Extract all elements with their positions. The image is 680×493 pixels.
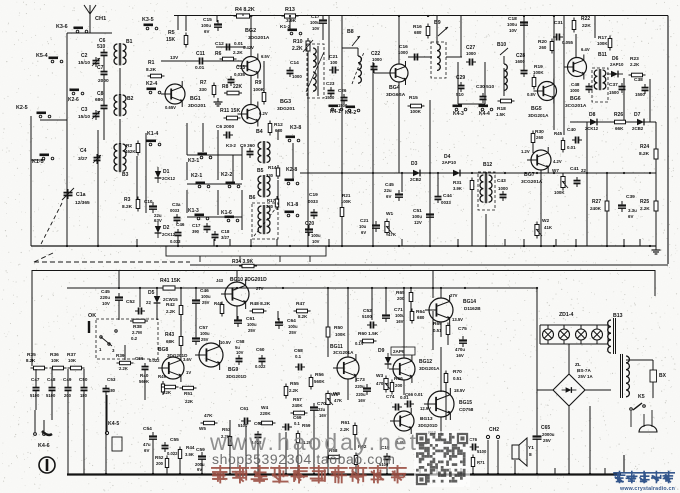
svg-text:2CB2: 2CB2: [410, 177, 422, 182]
svg-text:ZD1-4: ZD1-4: [559, 312, 574, 318]
svg-text:B1: B1: [126, 39, 133, 45]
svg-text:W2: W2: [542, 218, 550, 224]
svg-text:Y1: Y1: [528, 445, 534, 451]
svg-text:K2-4: K2-4: [146, 81, 157, 87]
svg-text:BX: BX: [659, 373, 667, 379]
svg-text:R17: R17: [267, 198, 276, 203]
svg-text:D7: D7: [634, 112, 641, 118]
svg-text:260: 260: [536, 135, 544, 140]
svg-text:10V: 10V: [312, 239, 320, 244]
svg-text:BG14: BG14: [463, 299, 476, 305]
svg-text:8: 8: [529, 452, 532, 458]
svg-text:C17: C17: [192, 223, 201, 228]
svg-text:C62: C62: [254, 421, 263, 426]
svg-text:C23: C23: [326, 81, 335, 86]
svg-text:0.033: 0.033: [170, 239, 181, 244]
svg-text:6V: 6V: [144, 448, 149, 453]
svg-text:R47: R47: [296, 301, 305, 307]
svg-text:K5-4: K5-4: [36, 53, 48, 59]
svg-text:C20: C20: [305, 221, 314, 227]
svg-text:47K: 47K: [204, 413, 213, 418]
svg-text:8.2K: 8.2K: [146, 67, 157, 73]
svg-text:C52: C52: [126, 299, 135, 305]
svg-text:0.01: 0.01: [195, 65, 205, 71]
svg-text:C19: C19: [309, 192, 318, 198]
svg-text:B2: B2: [127, 96, 134, 102]
svg-text:R26: R26: [614, 112, 623, 118]
svg-text:K4-3: K4-3: [453, 111, 464, 117]
svg-text:3CG201A: 3CG201A: [565, 103, 587, 109]
svg-text:R51: R51: [184, 391, 193, 396]
svg-text:OK: OK: [88, 313, 96, 319]
svg-text:240K: 240K: [292, 403, 303, 408]
svg-text:R22: R22: [581, 16, 590, 22]
svg-text:100u: 100u: [200, 331, 210, 336]
svg-text:100u: 100u: [412, 214, 422, 219]
svg-text:R10: R10: [293, 39, 303, 45]
svg-text:8.2K: 8.2K: [298, 314, 308, 319]
svg-text:R7: R7: [200, 80, 207, 86]
svg-text:K4-4: K4-4: [479, 111, 490, 117]
svg-text:K2-5: K2-5: [16, 105, 28, 111]
svg-text:8.2K: 8.2K: [122, 204, 133, 210]
svg-text:2CB2: 2CB2: [632, 126, 644, 131]
svg-text:W7: W7: [552, 168, 559, 173]
svg-text:C38: C38: [634, 77, 643, 83]
svg-text:10K: 10K: [51, 358, 60, 363]
svg-text:68K: 68K: [166, 339, 175, 344]
svg-text:R45: R45: [554, 131, 563, 136]
svg-text:22K: 22K: [163, 390, 172, 395]
svg-text:C56: C56: [135, 356, 144, 361]
svg-text:B10: B10: [497, 42, 506, 48]
svg-text:C18: C18: [221, 229, 230, 234]
svg-text:R1: R1: [148, 60, 155, 66]
svg-text:25V: 25V: [202, 300, 210, 305]
svg-text:3DG201: 3DG201: [277, 106, 295, 112]
svg-text:470u: 470u: [455, 347, 465, 352]
svg-text:100K: 100K: [533, 70, 544, 75]
svg-text:2AP9: 2AP9: [393, 349, 405, 354]
svg-text:0.022: 0.022: [149, 358, 160, 363]
svg-text:3/27: 3/27: [78, 156, 88, 162]
svg-text:BG12: BG12: [419, 359, 432, 365]
svg-text:2.2K: 2.2K: [630, 62, 640, 67]
svg-text:0.2: 0.2: [131, 336, 138, 341]
svg-text:R15: R15: [409, 95, 418, 101]
svg-text:C58: C58: [236, 339, 245, 344]
svg-text:D8: D8: [589, 112, 596, 118]
svg-text:K4-6: K4-6: [38, 443, 50, 449]
svg-text:R5: R5: [168, 30, 175, 36]
svg-text:C40: C40: [567, 127, 576, 133]
svg-text:BG5: BG5: [531, 106, 542, 112]
svg-text:25V: 25V: [248, 328, 256, 333]
svg-text:K3-6: K3-6: [56, 24, 68, 30]
svg-text:3DG201A: 3DG201A: [528, 113, 549, 118]
svg-text:D1: D1: [163, 169, 170, 175]
svg-text:D1162B: D1162B: [464, 306, 481, 311]
svg-text:680: 680: [275, 128, 283, 133]
svg-text:B6: B6: [249, 195, 256, 201]
svg-text:K2-2: K2-2: [221, 172, 232, 178]
svg-text:BG15: BG15: [459, 400, 472, 406]
svg-text:560K: 560K: [314, 379, 325, 384]
svg-text:5100: 5100: [362, 314, 372, 319]
svg-text:C41: C41: [570, 166, 579, 172]
svg-text:BG6: BG6: [570, 96, 581, 102]
svg-text:16V: 16V: [396, 319, 404, 324]
svg-text:2000u: 2000u: [542, 432, 555, 437]
svg-text:25V 1A: 25V 1A: [578, 374, 593, 379]
svg-text:R3: R3: [124, 197, 131, 203]
svg-text:R52: R52: [155, 455, 164, 460]
svg-text:R56: R56: [315, 372, 324, 378]
svg-text:100: 100: [330, 60, 338, 65]
svg-text:K4-5: K4-5: [108, 421, 119, 427]
svg-text:BG10 3DG201D: BG10 3DG201D: [230, 277, 267, 283]
svg-text:25V: 25V: [289, 330, 297, 335]
svg-text:2CW15: 2CW15: [163, 297, 178, 302]
svg-text:220u: 220u: [356, 392, 366, 397]
svg-text:R31: R31: [453, 180, 462, 185]
svg-text:C17: C17: [311, 14, 320, 19]
svg-text:22: 22: [146, 300, 151, 305]
svg-text:CD758: CD758: [459, 407, 474, 412]
svg-text:100u: 100u: [507, 22, 517, 27]
svg-text:K1-8: K1-8: [287, 202, 298, 208]
svg-text:18.5V: 18.5V: [454, 388, 465, 393]
svg-text:R60 1.5K: R60 1.5K: [358, 331, 379, 337]
svg-text:D5: D5: [148, 290, 155, 296]
svg-text:D9: D9: [378, 348, 385, 354]
svg-text:B5: B5: [257, 168, 264, 174]
svg-text:C37: C37: [609, 82, 618, 88]
svg-text:220K: 220K: [260, 411, 271, 416]
svg-text:K3-1: K3-1: [188, 158, 199, 164]
svg-text:3DG201: 3DG201: [188, 103, 206, 109]
svg-text:C76: C76: [469, 437, 478, 442]
svg-text:B3: B3: [122, 172, 129, 178]
svg-text:22K: 22K: [185, 399, 194, 404]
svg-text:BG3: BG3: [280, 99, 291, 105]
svg-text:6.4V: 6.4V: [581, 47, 590, 52]
svg-text:1V: 1V: [186, 370, 191, 375]
svg-text:W6: W6: [333, 391, 341, 397]
svg-text:6V: 6V: [628, 214, 633, 219]
svg-text:22K: 22K: [233, 84, 243, 90]
svg-text:C75: C75: [458, 326, 467, 332]
svg-text:R40: R40: [140, 373, 149, 378]
svg-text:0.01: 0.01: [234, 41, 243, 46]
svg-text:462K: 462K: [125, 149, 136, 154]
svg-text:J43: J43: [216, 278, 224, 283]
svg-text:C49: C49: [63, 377, 72, 382]
svg-text:0033: 0033: [170, 208, 180, 213]
svg-text:R11 15K: R11 15K: [220, 108, 240, 114]
svg-text:1500: 1500: [635, 92, 645, 97]
svg-text:2.7M: 2.7M: [132, 330, 142, 335]
svg-text:16V: 16V: [319, 413, 327, 418]
svg-text:R21: R21: [342, 193, 351, 198]
svg-text:0.8V: 0.8V: [527, 92, 536, 97]
svg-text:2AP10: 2AP10: [442, 160, 456, 165]
svg-text:0.022: 0.022: [255, 364, 266, 369]
svg-text:R48 8.2K: R48 8.2K: [250, 301, 271, 307]
svg-text:1000: 1000: [292, 74, 302, 79]
svg-text:10u: 10u: [359, 224, 367, 229]
svg-text:3DG201A: 3DG201A: [419, 366, 440, 371]
svg-text:3CG201A: 3CG201A: [333, 350, 354, 355]
svg-text:C54: C54: [143, 426, 152, 432]
svg-text:K2-6: K2-6: [68, 97, 79, 103]
svg-text:22u: 22u: [318, 407, 326, 412]
svg-text:3.9K: 3.9K: [185, 452, 194, 457]
svg-text:C50: C50: [79, 377, 88, 382]
svg-text:1.5K: 1.5K: [496, 112, 506, 117]
svg-text:100K: 100K: [597, 41, 608, 46]
svg-text:BG1: BG1: [190, 96, 201, 102]
svg-text:6V: 6V: [204, 29, 209, 34]
svg-text:C29: C29: [456, 75, 465, 81]
svg-text:6.5V: 6.5V: [261, 54, 270, 59]
svg-text:4.2V: 4.2V: [553, 159, 562, 164]
svg-text:W5: W5: [199, 426, 206, 431]
svg-text:D2: D2: [163, 225, 170, 231]
svg-text:13.5V: 13.5V: [452, 317, 463, 322]
svg-text:C8: C8: [97, 91, 104, 97]
svg-text:680: 680: [417, 315, 425, 320]
svg-text:C1a: C1a: [76, 192, 86, 198]
svg-text:10V: 10V: [509, 28, 517, 33]
svg-text:0033: 0033: [308, 199, 318, 204]
svg-text:C47: C47: [31, 377, 40, 382]
svg-text:12V: 12V: [414, 220, 422, 225]
svg-text:C60: C60: [256, 347, 265, 352]
svg-text:560K: 560K: [139, 379, 149, 384]
svg-text:R13: R13: [285, 7, 295, 13]
svg-text:R4 8.2K: R4 8.2K: [235, 7, 255, 13]
svg-text:3.9K: 3.9K: [286, 18, 297, 24]
svg-text:8.2K: 8.2K: [639, 151, 650, 157]
svg-text:3.3u: 3.3u: [628, 208, 637, 213]
svg-text:R27: R27: [592, 199, 601, 205]
svg-text:K2-8: K2-8: [286, 167, 297, 173]
svg-text:CH1: CH1: [95, 16, 106, 22]
svg-text:C3a: C3a: [172, 202, 181, 207]
svg-text:15/10: 15/10: [78, 114, 90, 120]
svg-text:R44: R44: [186, 445, 195, 450]
svg-text:470: 470: [376, 381, 384, 386]
svg-text:K5: K5: [638, 394, 645, 400]
svg-text:C21: C21: [360, 218, 369, 223]
svg-text:C7: C7: [97, 65, 104, 71]
svg-text:260: 260: [539, 45, 547, 50]
svg-text:C11: C11: [196, 51, 205, 57]
svg-text:41K: 41K: [544, 225, 553, 230]
svg-text:BG13: BG13: [420, 416, 433, 422]
svg-text:B4: B4: [256, 129, 263, 135]
svg-text:K3-2: K3-2: [226, 143, 236, 148]
svg-text:2AP10: 2AP10: [610, 62, 624, 67]
svg-text:1000: 1000: [398, 50, 408, 55]
svg-text:100u: 100u: [288, 324, 298, 329]
svg-text:R46: R46: [214, 301, 223, 306]
svg-text:0.65V: 0.65V: [165, 105, 176, 110]
svg-text:22K: 22K: [582, 23, 591, 29]
svg-text:C14: C14: [290, 60, 299, 66]
svg-text:C48: C48: [571, 82, 580, 87]
svg-text:C2: C2: [81, 53, 88, 59]
svg-text:C48: C48: [47, 377, 56, 382]
svg-text:100u: 100u: [311, 233, 321, 238]
svg-text:200: 200: [156, 461, 164, 466]
svg-text:R55: R55: [290, 381, 299, 387]
svg-text:10V: 10V: [236, 350, 244, 355]
svg-text:K2-1: K2-1: [191, 173, 202, 179]
svg-text:240K: 240K: [590, 206, 602, 211]
svg-text:1000: 1000: [570, 88, 580, 93]
svg-text:10V: 10V: [102, 301, 110, 306]
svg-text:2.2K: 2.2K: [289, 388, 299, 393]
svg-text:W3: W3: [376, 373, 384, 379]
svg-text:C55: C55: [170, 437, 179, 443]
svg-text:15/10: 15/10: [78, 60, 90, 66]
svg-text:C61: C61: [240, 406, 249, 411]
svg-text:BS-7A: BS-7A: [577, 368, 591, 373]
svg-text:510: 510: [456, 92, 464, 97]
svg-text:2CK12: 2CK12: [162, 232, 176, 237]
svg-text:R14: R14: [268, 165, 277, 170]
svg-text:3.9K: 3.9K: [453, 186, 462, 191]
svg-text:1000: 1000: [466, 51, 476, 56]
svg-text:C65: C65: [541, 425, 550, 431]
svg-text:K1-3: K1-3: [188, 208, 199, 214]
svg-text:3DG201D: 3DG201D: [226, 374, 247, 379]
svg-text:C43: C43: [497, 178, 506, 184]
svg-text:6.2V: 6.2V: [259, 111, 268, 116]
svg-text:22: 22: [581, 168, 586, 173]
svg-text:K3-5: K3-5: [142, 17, 154, 23]
svg-text:0.1: 0.1: [294, 421, 300, 426]
svg-text:0.51: 0.51: [453, 376, 462, 381]
svg-text:R59: R59: [302, 423, 311, 428]
svg-text:66K: 66K: [615, 126, 624, 131]
svg-text:R6: R6: [215, 51, 222, 57]
svg-text:10.5V: 10.5V: [220, 340, 231, 345]
svg-text:C6 2000: C6 2000: [216, 124, 234, 130]
svg-text:5100: 5100: [477, 449, 487, 454]
svg-text:47K: 47K: [388, 232, 397, 237]
svg-text:2.2K: 2.2K: [640, 206, 650, 211]
svg-text:100K: 100K: [554, 190, 565, 195]
svg-text:8.2K: 8.2K: [26, 358, 36, 363]
svg-text:180: 180: [108, 388, 116, 393]
svg-text:100u: 100u: [201, 23, 211, 28]
svg-text:C3: C3: [81, 107, 88, 113]
svg-text:10K: 10K: [68, 358, 77, 363]
svg-text:C31: C31: [554, 20, 563, 26]
svg-text:100K: 100K: [341, 199, 351, 204]
svg-text:D3: D3: [411, 161, 418, 167]
svg-text:2.2K: 2.2K: [233, 50, 243, 55]
svg-text:K1-4: K1-4: [147, 131, 158, 137]
svg-text:C53: C53: [107, 377, 116, 382]
svg-text:680: 680: [95, 97, 103, 103]
svg-text:100K: 100K: [335, 332, 346, 337]
svg-text:12.9V: 12.9V: [420, 406, 431, 411]
svg-text:K1-6: K1-6: [221, 210, 232, 216]
svg-text:0.1V: 0.1V: [355, 341, 364, 346]
svg-text:C12: C12: [215, 41, 224, 47]
svg-text:R39: R39: [116, 353, 125, 358]
svg-text:12/365: 12/365: [75, 200, 90, 206]
svg-text:27V: 27V: [256, 286, 264, 291]
svg-text:100u: 100u: [395, 313, 405, 318]
svg-text:47K: 47K: [334, 398, 343, 403]
svg-text:25V: 25V: [201, 337, 209, 342]
svg-text:6V: 6V: [361, 230, 366, 235]
svg-text:100K: 100K: [253, 87, 265, 92]
svg-text:BG4: BG4: [389, 85, 400, 91]
svg-text:27V: 27V: [450, 293, 458, 298]
svg-text:1000: 1000: [372, 57, 382, 62]
svg-text:47u: 47u: [143, 442, 151, 447]
svg-text:B11: B11: [598, 52, 607, 58]
svg-text:0.035: 0.035: [234, 72, 246, 77]
svg-text:BG9: BG9: [228, 367, 239, 373]
svg-text:5100: 5100: [46, 393, 56, 398]
svg-text:3CG201A: 3CG201A: [521, 179, 543, 185]
svg-text:0.1: 0.1: [295, 354, 302, 359]
svg-text:390: 390: [192, 229, 200, 234]
svg-text:5100: 5100: [30, 393, 40, 398]
svg-text:10V: 10V: [312, 26, 320, 31]
svg-text:CH2: CH2: [489, 427, 499, 433]
svg-text:0033: 0033: [441, 200, 451, 205]
svg-text:100K: 100K: [410, 109, 422, 114]
svg-text:C74: C74: [386, 394, 395, 399]
svg-text:1500: 1500: [325, 95, 335, 100]
svg-text:R24: R24: [640, 144, 649, 150]
svg-text:C44: C44: [443, 193, 452, 199]
svg-text:22u: 22u: [384, 188, 392, 193]
svg-text:1500: 1500: [609, 90, 619, 95]
svg-text:3DG6SA: 3DG6SA: [386, 92, 406, 98]
svg-text:C69: C69: [293, 415, 302, 420]
svg-text:13V: 13V: [170, 55, 179, 60]
svg-text:220u: 220u: [100, 295, 110, 300]
svg-text:16V: 16V: [358, 398, 366, 403]
svg-text:6V: 6V: [386, 194, 391, 199]
svg-text:R43: R43: [165, 332, 174, 338]
svg-text:680: 680: [414, 30, 422, 35]
svg-text:0.022: 0.022: [167, 451, 178, 456]
svg-text:16V: 16V: [456, 353, 464, 358]
svg-text:200: 200: [395, 383, 403, 388]
svg-text:2CK12: 2CK12: [162, 176, 176, 181]
svg-text:0.01: 0.01: [567, 145, 576, 150]
svg-text:R66: R66: [394, 376, 403, 382]
svg-text:1.2V: 1.2V: [521, 149, 530, 154]
svg-text:C46: C46: [176, 222, 185, 227]
svg-text:R50: R50: [334, 325, 343, 331]
svg-text:R61: R61: [341, 420, 350, 426]
svg-text:R9: R9: [255, 80, 262, 86]
svg-text:330: 330: [266, 173, 274, 178]
svg-text:C10: C10: [144, 199, 153, 204]
svg-text:1000: 1000: [498, 186, 508, 191]
